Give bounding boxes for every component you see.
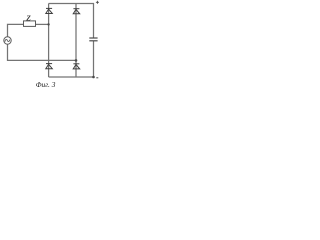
capacitor C1	[89, 38, 97, 41]
wire: capacitor bottom to bottom rail	[93, 41, 95, 77]
AC source G1	[4, 37, 11, 44]
node A junction dot	[47, 23, 49, 25]
wire: right column	[75, 4, 77, 78]
wire: bottom rail	[49, 76, 94, 78]
wire: left column	[48, 4, 50, 78]
diode D3 (bottom left)	[46, 64, 53, 69]
label - (negative output)	[96, 77, 98, 79]
diode D4 (bottom right)	[73, 64, 80, 69]
wire: source bottom down to bottom rail corner	[8, 44, 77, 60]
wire: Z box right to node A	[36, 23, 50, 25]
wire: top rail and capacitor column top	[49, 4, 94, 38]
diode D2 (top right)	[73, 9, 80, 14]
svg-text:3: 3	[51, 80, 56, 89]
node: capacitor / bottom rail junction dot	[92, 76, 95, 79]
wire: source top to corner and right to Z box	[8, 24, 24, 37]
label + (positive output)	[96, 1, 99, 4]
impedance Z1 box	[24, 21, 36, 27]
svg-text:Фиг.: Фиг.	[36, 80, 50, 89]
background	[0, 0, 100, 89]
diode D1 (top left)	[46, 8, 53, 13]
node B junction dot	[75, 59, 78, 62]
svg-text:Z: Z	[25, 13, 31, 22]
